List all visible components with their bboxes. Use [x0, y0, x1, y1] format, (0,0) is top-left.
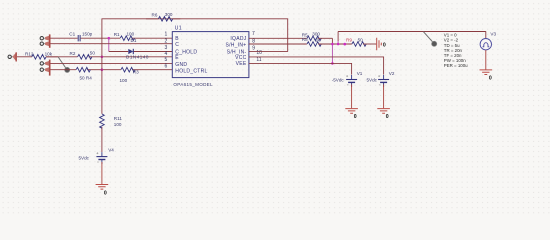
svg-text:U1: U1	[175, 25, 182, 31]
wire: pin 9 S/H_IN- to vertical up to R6 rail	[249, 51, 288, 53]
svg-text:0: 0	[489, 75, 492, 81]
svg-text:D1N4148: D1N4148	[126, 55, 149, 60]
svg-text:9: 9	[252, 45, 255, 51]
resistor R9	[346, 38, 376, 47]
resistor R1	[114, 31, 173, 42]
svg-text:100: 100	[127, 31, 135, 36]
wire: pin 11 VEE row to V1	[249, 63, 352, 74]
battery V2 5Vdc	[367, 71, 395, 87]
wire: pin 7 IQADJ stub	[249, 37, 307, 39]
svg-text:2: 2	[165, 38, 168, 44]
svg-text:3: 3	[165, 45, 168, 51]
node: junction on E row at bias vertical	[101, 56, 104, 59]
wire: port pin 2 row to C input	[50, 43, 172, 45]
pin numbers left	[165, 32, 168, 70]
op-amp U1 OPA615_MODEL	[172, 25, 249, 87]
svg-text:VEE: VEE	[236, 61, 247, 67]
svg-text:HOLD_CTRL: HOLD_CTRL	[175, 68, 207, 74]
svg-text:10k: 10k	[45, 51, 53, 56]
wire: vertical from R5 down across R8 row to VEE row	[331, 38, 333, 44]
svg-text:V4: V4	[108, 148, 114, 153]
svg-text:C1: C1	[69, 32, 75, 37]
diode D1 D1N4148	[109, 49, 173, 60]
resistor R12	[25, 51, 58, 59]
node: junction R5/R8 row	[331, 43, 334, 46]
wire: R4 to R3 with junction to bias chain	[102, 69, 121, 71]
svg-text:0: 0	[354, 114, 357, 120]
svg-text:C: C	[175, 42, 179, 48]
source V3 VPULSE	[480, 31, 496, 50]
svg-text:V1: V1	[357, 71, 363, 76]
ground 0 below V4	[96, 185, 109, 197]
wire: bias vertical from R6 rail node down to R11	[101, 38, 103, 114]
svg-text:R12: R12	[25, 51, 34, 56]
ground 0 below V3	[480, 70, 493, 82]
svg-text:R2: R2	[70, 51, 76, 56]
wire: vertical up from R8 row to top rail toward V3	[337, 32, 339, 42]
svg-text:V3: V3	[490, 32, 496, 37]
svg-text:R11: R11	[114, 116, 123, 121]
svg-text:7: 7	[252, 31, 255, 37]
resistor R4	[76, 67, 102, 80]
svg-text:E: E	[175, 55, 179, 61]
svg-text:D1: D1	[131, 38, 137, 43]
svg-text:0: 0	[104, 191, 107, 197]
battery V4 5Vdc	[79, 148, 115, 165]
svg-text:11: 11	[256, 57, 261, 63]
svg-text:0: 0	[383, 43, 386, 49]
node: junction right of R9 corner	[343, 43, 346, 46]
wire: pin 10 VCC row to V2	[249, 57, 384, 75]
node: junction at (101.9,69.7)	[101, 68, 104, 71]
wire: pin 8 S/H_IN+ row through R8	[249, 43, 307, 45]
ground 0 below V1	[345, 109, 358, 121]
voltage probe (left)	[58, 57, 70, 73]
resistor R5	[302, 31, 333, 40]
wire: V3 to ground	[485, 50, 487, 70]
node: junction on VEE row	[331, 62, 334, 65]
wire: R12 to R2 (E row)	[46, 56, 78, 58]
svg-text:R1: R1	[114, 32, 120, 37]
svg-text:IQADJ: IQADJ	[230, 36, 246, 42]
resistor R2	[70, 50, 103, 59]
resistor R11 (vertical)	[100, 114, 123, 152]
ground 0 (rotated) at R9	[377, 38, 386, 51]
wire: R2 to pin 4 (E)	[102, 56, 172, 58]
wire: R6 feedback rail from node above R1 to vertical at pin 9	[102, 19, 288, 52]
svg-text:100: 100	[114, 122, 122, 127]
svg-text:5Vdc: 5Vdc	[79, 155, 90, 160]
svg-text:5: 5	[165, 57, 168, 63]
svg-text:300: 300	[312, 31, 320, 36]
wire: V1 to ground	[351, 85, 353, 109]
wire: C1 to R1 with junction	[81, 37, 120, 39]
svg-text:R8: R8	[302, 37, 308, 42]
svg-text:1: 1	[165, 32, 168, 38]
wire: port to C1	[50, 37, 77, 39]
V3 parameter text	[444, 33, 468, 68]
svg-text:50: 50	[90, 50, 96, 55]
resistor R8	[302, 37, 352, 47]
svg-text:1k: 1k	[315, 38, 321, 43]
svg-text:100: 100	[120, 78, 128, 83]
wire: bottom port pin 2 to R4	[50, 69, 76, 71]
voltage probe (top right)	[423, 32, 436, 47]
port J3 (bottom connector, 2 pins)	[40, 60, 50, 76]
svg-text:R3: R3	[133, 70, 139, 75]
svg-text:0: 0	[386, 114, 389, 120]
svg-text:150p: 150p	[82, 31, 93, 36]
svg-text:PER = 100u: PER = 100u	[444, 63, 468, 68]
svg-text:10: 10	[256, 50, 262, 56]
port J2 (top input connector, 2 pins)	[40, 34, 50, 47]
svg-text:V2: V2	[389, 71, 395, 76]
svg-text:4: 4	[165, 51, 168, 57]
port J1 (far-left input connector)	[8, 52, 16, 61]
svg-text:300: 300	[165, 12, 173, 17]
battery V1 -5Vdc	[332, 71, 363, 87]
wire: vertical from node down to diode row	[108, 38, 110, 51]
svg-text:-5Vdc: -5Vdc	[332, 78, 345, 83]
wire: V4 to ground	[101, 162, 103, 184]
node: junction at R9 left	[337, 43, 340, 46]
svg-text:S/H_IN+: S/H_IN+	[226, 42, 247, 48]
svg-text:50: 50	[358, 38, 364, 43]
wire: top rail to V3	[338, 31, 486, 33]
svg-text:R6: R6	[152, 13, 158, 18]
resistor R6	[146, 12, 180, 21]
wire: V2 to ground	[383, 85, 385, 109]
svg-text:6: 6	[165, 64, 168, 70]
svg-text:R9: R9	[346, 38, 352, 43]
svg-text:5Vdc: 5Vdc	[367, 78, 378, 83]
svg-text:OPA615_MODEL: OPA615_MODEL	[173, 82, 213, 87]
svg-text:50 R4: 50 R4	[80, 75, 93, 80]
svg-text:8: 8	[252, 38, 255, 44]
ground 0 below V2	[377, 109, 390, 121]
svg-text:GND: GND	[175, 62, 187, 68]
node: junction at R1 left / vertical to D1	[108, 37, 111, 40]
wire: input row to R12	[17, 56, 31, 58]
capacitor C1 150p	[69, 31, 92, 41]
pin numbers right	[252, 31, 262, 63]
wire: bottom port pin 1 to GND pin row	[50, 62, 172, 64]
resistor R3	[120, 67, 173, 82]
